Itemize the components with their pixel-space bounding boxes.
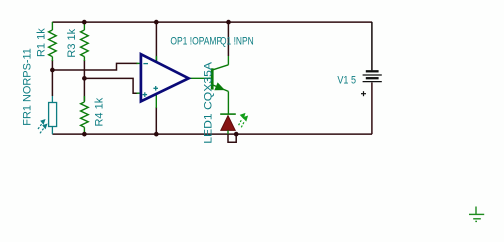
junction R4 bottom rail bbox=[82, 132, 87, 137]
wire node B to op-amp non-inverting input bbox=[84, 78, 137, 93]
svg-text:V1 5: V1 5 bbox=[337, 75, 356, 87]
svg-text:FR1 NORPS-11: FR1 NORPS-11 bbox=[22, 48, 34, 126]
photoresistor FR1 top lead bbox=[51, 96, 53, 103]
LED LED1 body bbox=[221, 116, 235, 131]
LED LED1 light arrows bbox=[239, 114, 248, 128]
LED LED1 anode lead bbox=[227, 130, 229, 134]
junction collector top rail bbox=[226, 20, 231, 25]
junction op-amp V+ top rail bbox=[154, 20, 159, 25]
wire transistor collector to top rail bbox=[227, 22, 229, 56]
op-amp OP1 non-inverting input mark bbox=[143, 92, 148, 97]
photoresistor FR1 bbox=[49, 103, 57, 135]
photoresistor FR1 light arrows bbox=[38, 120, 47, 133]
wire LED cathode detour to bottom rail junction bbox=[228, 134, 236, 142]
svg-text:LED1 CQX35A: LED1 CQX35A bbox=[202, 61, 214, 144]
transistor Q1 emitter arrow bbox=[215, 83, 224, 89]
svg-text:R3 1k: R3 1k bbox=[66, 28, 78, 57]
transistor Q1 bbox=[212, 56, 228, 114]
wire R1 bottom lead to node A bbox=[51, 60, 53, 70]
svg-text:R1 1k: R1 1k bbox=[36, 28, 48, 57]
resistor R4 bbox=[81, 96, 89, 134]
junction node B bbox=[82, 76, 87, 81]
wire R3 bottom to node B bbox=[83, 60, 85, 78]
wire node B to R4 top bbox=[83, 78, 85, 101]
svg-text:OP1 !OPAMP: OP1 !OPAMP bbox=[170, 36, 222, 48]
LED LED1 cathode bar bbox=[220, 113, 236, 115]
junction node A bbox=[50, 68, 55, 73]
battery V1 polarity mark bbox=[361, 91, 366, 96]
junction LED return bottom rail bbox=[234, 132, 239, 137]
svg-text:R4 1k: R4 1k bbox=[93, 97, 105, 126]
battery V1 bbox=[363, 71, 382, 81]
resistor R1 bbox=[49, 22, 57, 61]
op-amp OP1 bbox=[141, 54, 189, 101]
wire bottom rail bbox=[52, 133, 372, 135]
resistor R3 bbox=[81, 22, 89, 61]
op-amp OP1 pin stubs bbox=[137, 56, 212, 108]
wire op-amp V+ pin to top rail bbox=[155, 22, 157, 62]
wire node A to op-amp inverting input bbox=[52, 63, 137, 70]
junction R3 top rail bbox=[82, 20, 87, 25]
wire top rail bbox=[52, 21, 372, 23]
op-amp OP1 inverting input mark bbox=[143, 63, 148, 65]
junction op-amp V- bottom rail bbox=[154, 132, 159, 137]
ground bbox=[469, 207, 484, 222]
wire op-amp V- pin to bottom rail bbox=[155, 107, 157, 134]
wire right rail upper (battery negative lead) bbox=[371, 22, 373, 70]
wire right rail lower (battery positive lead) bbox=[371, 82, 373, 134]
svg-text:Q1 !NPN: Q1 !NPN bbox=[220, 36, 254, 48]
wire node A to FR1 top bbox=[51, 70, 53, 96]
op-amp OP1 positive supply mark bbox=[153, 86, 158, 91]
